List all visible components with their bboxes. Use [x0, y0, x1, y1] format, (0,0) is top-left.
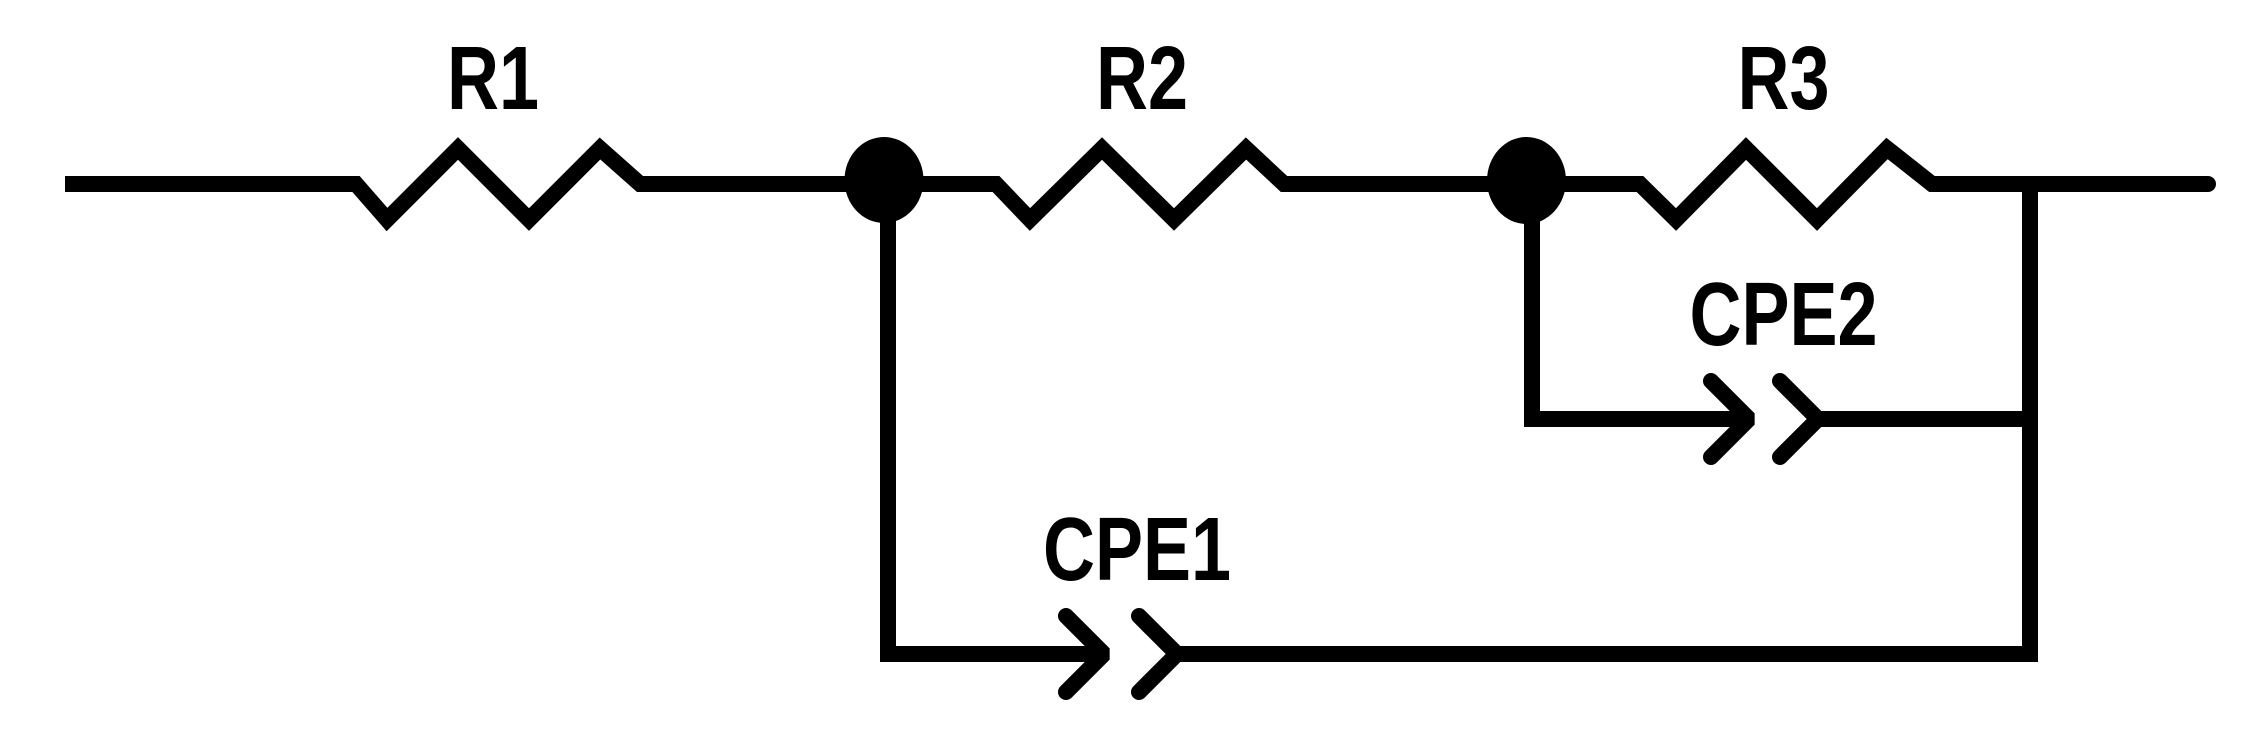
wire: R1 to node A [640, 176, 884, 192]
svg-text:CPE1: CPE1 [1043, 499, 1231, 599]
svg-text:CPE2: CPE2 [1689, 264, 1877, 364]
resistor R1 [320, 149, 680, 220]
CPE2 chevron 2 [1780, 381, 1818, 457]
svg-text:R3: R3 [1737, 28, 1829, 128]
wire: CPE2 right run to right riser [1818, 411, 2030, 427]
resistor R3 [1600, 149, 1970, 220]
wire: node A to R2 [884, 176, 996, 192]
wire: node A down-leg and CPE1 bottom-left run [888, 200, 1104, 654]
svg-text:R1: R1 [447, 28, 539, 128]
wire: node B to R3 [1526, 176, 1640, 192]
CPE1 chevron 2 [1139, 616, 1177, 692]
wire: node B down-leg and CPE2 left run [1532, 200, 1749, 419]
resistor R2 [960, 149, 1320, 220]
node A (junction dot) [845, 137, 924, 223]
node B (junction dot) [1487, 137, 1566, 224]
CPE1 chevron 1 [1066, 616, 1104, 692]
wire: right riser joining top lead, CPE2 and CPE1 [2022, 184, 2038, 424]
wire: left input lead [65, 176, 356, 192]
svg-text:R2: R2 [1096, 28, 1188, 128]
wire: CPE1 right run [1177, 420, 2030, 654]
wire: R3 to right output lead (round end) [1932, 176, 2208, 192]
wire: R2 to node B [1284, 176, 1526, 192]
CPE2 chevron 1 [1711, 381, 1749, 457]
